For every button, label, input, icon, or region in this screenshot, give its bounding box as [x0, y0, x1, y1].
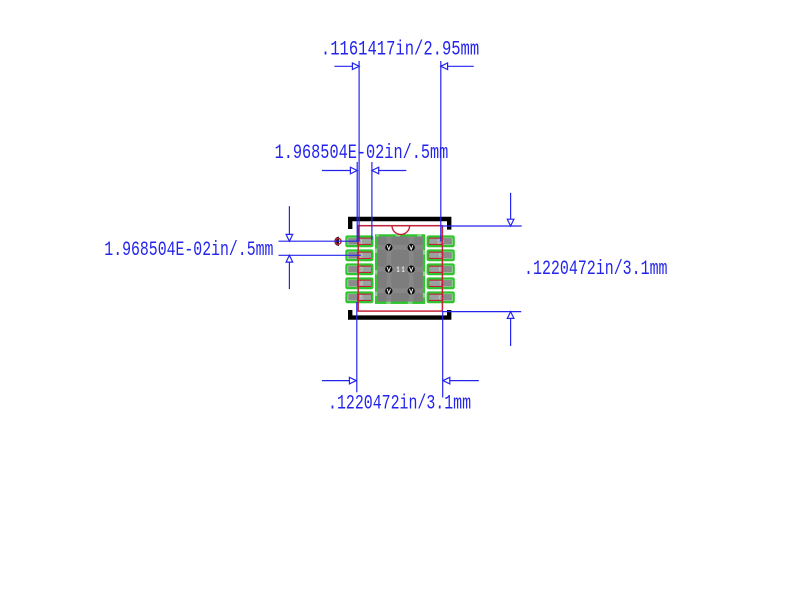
via V4	[408, 265, 415, 272]
dimension 2.95mm horizontal top	[334, 61, 473, 242]
svg-text:1.968504E-02in/.5mm: 1.968504E-02in/.5mm	[275, 142, 449, 165]
svg-text:2: 2	[359, 253, 363, 260]
svg-text:.1161417in/2.95mm: .1161417in/2.95mm	[321, 39, 479, 62]
silkscreen pin-1 arc	[392, 226, 410, 235]
silkscreen body outline	[358, 226, 442, 311]
pad 10	[428, 237, 454, 247]
dimension 0.5mm pitch top	[322, 162, 406, 242]
pad 6	[428, 293, 454, 303]
via V3	[385, 265, 392, 272]
via V6	[408, 287, 415, 294]
pad 4	[346, 279, 372, 289]
svg-text:1: 1	[359, 239, 363, 246]
via V1	[385, 244, 392, 251]
thermal pad 11 paste tiles	[377, 236, 423, 302]
pad 2	[346, 251, 372, 261]
courtyard bottom bracket	[350, 310, 449, 318]
pad 5	[346, 293, 372, 303]
svg-text:5: 5	[359, 295, 363, 302]
courtyard top bracket	[350, 219, 449, 230]
svg-text:.1220472in/3.1mm: .1220472in/3.1mm	[328, 393, 471, 416]
pad 9	[428, 251, 454, 261]
svg-text:4: 4	[359, 281, 363, 288]
pad 8	[428, 265, 454, 275]
dimension 3.1mm vertical right	[442, 193, 522, 346]
pin-1 origin marker	[334, 237, 341, 246]
dimension 3.1mm horizontal bottom	[322, 302, 479, 398]
pad 3	[346, 265, 372, 275]
via V5	[385, 287, 392, 294]
svg-text:3: 3	[359, 267, 363, 274]
svg-text:1.968504E-02in/.5mm: 1.968504E-02in/.5mm	[104, 239, 273, 262]
thermal pad 11 label	[397, 267, 404, 272]
dimension 0.5mm pitch left	[279, 206, 361, 289]
via V2	[408, 244, 415, 251]
thermal pad 11 copper	[376, 235, 424, 302]
pad 1	[346, 237, 372, 247]
svg-text:.1220472in/3.1mm: .1220472in/3.1mm	[524, 258, 668, 281]
pad 7	[428, 279, 454, 289]
thermal pad 11 outline	[376, 235, 424, 302]
